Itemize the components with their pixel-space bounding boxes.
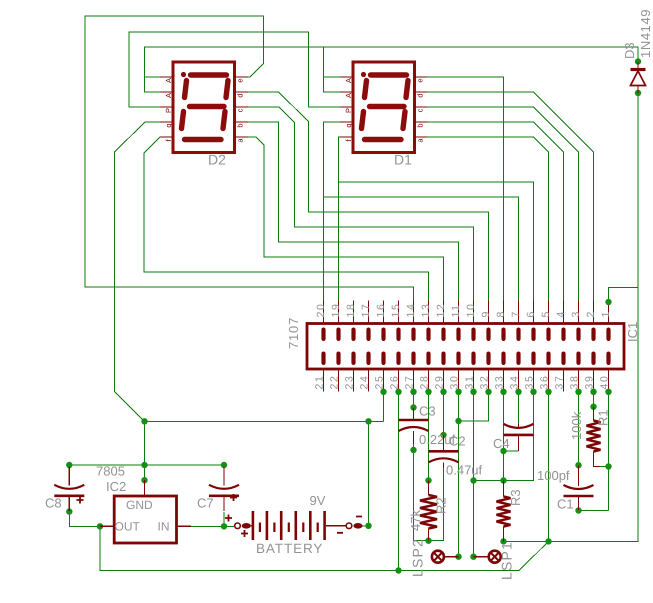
junction battery-minus tap	[365, 418, 371, 424]
wire C7 bottom lead	[223, 512, 225, 526]
resistor R3	[497, 497, 511, 527]
junction IC pin 35 stub	[530, 389, 536, 395]
junction IC pin 31 stub	[470, 389, 476, 395]
svg-text:100k: 100k	[569, 411, 584, 440]
svg-text:c: c	[236, 108, 245, 112]
junction R1 top	[590, 404, 596, 410]
junction IC pin 39 stub	[590, 389, 596, 395]
svg-text:d: d	[416, 93, 425, 97]
D2 segment g	[190, 104, 225, 109]
svg-text:C4: C4	[493, 436, 510, 451]
wire IC pin 29 to C2	[443, 392, 445, 445]
junction IC pin 28 stub	[425, 389, 431, 395]
junction IC pin 27 stub	[410, 389, 416, 395]
wire D2.d to IC pin 9	[248, 92, 489, 301]
junction IC pin 40 stub	[605, 389, 611, 395]
junction LSP1 pin	[470, 554, 476, 560]
svg-text:28: 28	[419, 375, 431, 390]
wire top rail C8 to C7	[69, 464, 224, 466]
svg-text:22: 22	[329, 375, 341, 390]
capacitor C4	[504, 424, 534, 428]
resistor R1	[587, 421, 601, 452]
wire D2.g down to ground node	[115, 122, 161, 421]
wire D1.c to IC pin 3	[427, 107, 579, 301]
C8 plus sign	[77, 497, 84, 504]
junction C8 top	[66, 462, 72, 468]
svg-text:C2: C2	[449, 434, 466, 449]
wire C4 bottom to pin 33 net	[504, 450, 519, 452]
svg-text:39: 39	[584, 375, 596, 390]
svg-text:19: 19	[330, 303, 342, 318]
wire decimal points D2.P to D1.P	[129, 32, 340, 107]
svg-text:A: A	[164, 93, 173, 98]
junction IC pin 29 stub	[440, 389, 446, 395]
svg-text:IC2: IC2	[106, 479, 126, 494]
svg-text:38: 38	[569, 375, 581, 390]
wire anode rail to diode D3	[145, 47, 639, 92]
svg-text:g: g	[344, 123, 353, 127]
wire down to battery minus	[368, 421, 370, 526]
wire IC pin 27 to C3	[413, 392, 415, 409]
svg-text:15: 15	[390, 303, 402, 318]
IC2 IN pin stub	[177, 525, 192, 527]
junction C8 bottom	[66, 508, 72, 514]
svg-text:A: A	[164, 78, 173, 83]
svg-text:29: 29	[434, 375, 446, 390]
svg-text:35: 35	[524, 375, 536, 390]
junction C4 bottom	[500, 448, 506, 454]
svg-text:20: 20	[315, 303, 327, 318]
wire D1.d to IC pin 2	[427, 92, 594, 301]
svg-text:26: 26	[389, 375, 401, 390]
D2 segment d	[185, 137, 222, 142]
wire ground node to 7805 GND pin	[144, 421, 146, 480]
svg-text:2: 2	[585, 310, 597, 317]
wire D1 anode riser	[324, 47, 341, 92]
svg-text:D3: D3	[622, 42, 637, 59]
wire D2.c to IC pin 10	[248, 107, 474, 301]
junction LSP2 pin	[455, 554, 461, 560]
svg-text:D1: D1	[394, 152, 412, 168]
svg-text:32: 32	[479, 375, 491, 390]
svg-text:33: 33	[494, 375, 506, 390]
IC1 pin stubs	[324, 301, 609, 392]
svg-text:C1: C1	[557, 497, 574, 512]
svg-text:12: 12	[435, 303, 447, 318]
svg-text:36: 36	[539, 375, 551, 390]
D1 segment d	[365, 137, 402, 142]
junction C1 bottom	[575, 507, 581, 513]
svg-text:R2: R2	[434, 497, 449, 514]
svg-text:A: A	[344, 93, 353, 98]
svg-text:6: 6	[525, 310, 537, 317]
wire IC pin 36 down	[548, 392, 550, 542]
wire D1.a to IC pin 5	[427, 137, 549, 301]
junction R3 top	[500, 477, 506, 483]
svg-text:40: 40	[599, 375, 611, 390]
svg-text:23: 23	[344, 375, 356, 390]
wire C8 bottom to OUT node	[69, 512, 100, 527]
svg-text:P: P	[344, 108, 353, 113]
svg-text:C7: C7	[197, 496, 214, 511]
D2 segment e	[182, 112, 184, 129]
wire D2.a to IC pin 12	[248, 137, 444, 301]
svg-text:0.47uf: 0.47uf	[446, 463, 483, 478]
junction IC pin 25 stub	[380, 389, 386, 395]
junction ground node	[141, 418, 147, 424]
capacitor C8	[54, 485, 84, 489]
svg-text:37: 37	[554, 375, 566, 390]
D1 segment b	[406, 81, 408, 98]
junction GND rail	[141, 462, 147, 468]
wire D1.g down to IC pin 20	[324, 122, 341, 301]
svg-text:1N4149: 1N4149	[638, 9, 653, 58]
C7 plus sign	[230, 494, 237, 501]
svg-text:30: 30	[449, 375, 461, 390]
junction C3 bottom	[410, 447, 416, 453]
junction diode bottom	[635, 90, 641, 96]
IC2 OUT pin stub	[100, 525, 114, 527]
svg-text:C3: C3	[419, 404, 436, 419]
svg-text:e: e	[416, 78, 425, 82]
svg-text:e: e	[236, 78, 245, 82]
junction pin30-pin32	[455, 418, 461, 424]
D1 segment f	[365, 81, 367, 98]
voltage regulator IC2 7805 body	[114, 496, 176, 543]
junction R3-rail-pin36	[545, 538, 551, 544]
junction R2 bottom	[425, 538, 431, 544]
junction IC pin 36 stub	[545, 389, 551, 395]
battery leads	[251, 525, 346, 527]
wire IC pin 25 jog	[383, 392, 385, 422]
junction C7 top	[221, 462, 227, 468]
svg-text:9: 9	[480, 310, 492, 317]
svg-text:GND: GND	[126, 498, 153, 512]
svg-text:OUT: OUT	[115, 520, 141, 534]
svg-text:18: 18	[345, 303, 357, 318]
svg-text:25: 25	[374, 375, 386, 390]
junction battery minus	[365, 523, 371, 529]
wire C1 bottom to pin 40 net	[579, 510, 609, 512]
junction C3 top	[410, 404, 416, 410]
svg-text:g: g	[164, 123, 173, 127]
wire IC pin 38 to C1	[578, 392, 580, 466]
svg-text:11: 11	[450, 303, 462, 317]
D1 segment g	[370, 104, 405, 109]
svg-text:7805: 7805	[96, 464, 125, 479]
D2 segment a	[191, 72, 227, 77]
junction IC pin 30 stub	[455, 389, 461, 395]
IC1 pads	[606, 328, 610, 342]
junction IC pin 38 stub	[575, 389, 581, 395]
svg-text:b: b	[416, 123, 425, 127]
wire D2.e to IC pin 14 (via top-left loop)	[85, 16, 414, 301]
junction IC pin 26 stub	[395, 389, 401, 395]
wire branch to IC pin 6	[339, 182, 534, 301]
wire R3 bottom	[504, 540, 549, 542]
IC2 GND pin stub	[144, 480, 146, 496]
svg-text:R1: R1	[596, 409, 611, 426]
svg-text:A: A	[344, 78, 353, 83]
capacitor C3	[399, 419, 429, 422]
wire IC pin 26 down to bottom rail	[398, 392, 400, 571]
svg-text:7107: 7107	[286, 317, 301, 349]
junction pin31 row	[470, 477, 476, 483]
svg-text:10: 10	[465, 303, 477, 318]
svg-text:LSP2: LSP2	[410, 538, 426, 577]
IC U1 7107 body	[307, 324, 624, 370]
wire branch pin 30 to pin 32	[459, 392, 489, 422]
wire diode cathode down right side	[549, 93, 639, 541]
junction R2 top	[425, 477, 431, 483]
wire D2.f to IC pin 13	[144, 137, 429, 301]
junction C1 top	[575, 462, 581, 468]
svg-text:b: b	[236, 123, 245, 127]
svg-text:C8: C8	[45, 496, 62, 511]
junction IC pin 1	[605, 299, 611, 305]
wire C3 bottom to R2 bottom	[414, 444, 429, 541]
D2 segment f	[185, 81, 187, 98]
battery minus marks	[337, 517, 362, 533]
junction R1 bottom	[605, 463, 611, 469]
svg-text:d: d	[236, 93, 245, 97]
wire D1.e to IC pin 8	[427, 77, 504, 301]
svg-text:13: 13	[420, 303, 432, 318]
wire D1.b to IC pin 4	[427, 122, 564, 301]
solder pad LSP2	[432, 551, 444, 563]
wire R1 bottom to pin 40	[600, 466, 609, 468]
wire IC pin 40 down	[608, 392, 610, 511]
wire IC pin 33 to R3	[503, 392, 505, 481]
junction diode top	[635, 58, 641, 64]
svg-text:7: 7	[510, 310, 522, 317]
svg-text:31: 31	[464, 375, 476, 390]
wire IC pin 30 down to LSP2	[458, 392, 460, 557]
svg-text:9V: 9V	[310, 493, 326, 508]
7-segment display D2 body	[173, 62, 235, 153]
junction OUT pin	[97, 523, 103, 529]
svg-text:1: 1	[600, 310, 612, 317]
svg-text:R3: R3	[508, 489, 523, 506]
battery plus marks	[225, 515, 248, 538]
D1 segment a	[371, 72, 407, 77]
svg-text:BATTERY: BATTERY	[256, 541, 323, 556]
wire IN pin to battery plus	[191, 525, 235, 527]
wire ground horizontal	[145, 420, 384, 422]
wire IC pin 39 to R1	[593, 392, 595, 407]
svg-text:4: 4	[555, 310, 567, 317]
D2 segment b	[226, 81, 228, 98]
svg-text:21: 21	[314, 375, 326, 390]
svg-text:24: 24	[359, 375, 371, 390]
wire D2 anode pin1	[145, 76, 161, 78]
wire battery minus terminal	[363, 525, 369, 527]
svg-text:IN: IN	[158, 520, 170, 534]
svg-text:8: 8	[495, 310, 507, 317]
wire IC pin 31 down to LSP1	[473, 392, 475, 557]
solder pad LSP1	[489, 551, 501, 563]
junction pin 26 on bottom rail	[395, 567, 401, 573]
svg-text:14: 14	[405, 303, 417, 318]
wire branch to IC pin 7	[324, 197, 519, 301]
diode D3	[631, 68, 646, 71]
capacitor C7	[209, 485, 239, 489]
svg-text:3: 3	[570, 310, 582, 317]
junction R3 bottom	[500, 538, 506, 544]
battery cells	[252, 511, 255, 540]
svg-text:5: 5	[540, 310, 552, 317]
svg-text:c: c	[416, 108, 425, 112]
D1 decimal point	[361, 72, 366, 77]
wire IC pin 34 to C4	[518, 392, 520, 425]
svg-text:47k: 47k	[408, 510, 423, 531]
wire IC pin 28 to R2	[428, 392, 430, 481]
battery B1 terminals	[235, 523, 241, 529]
svg-text:D2: D2	[208, 152, 226, 168]
junction IC pin 33 stub	[500, 389, 506, 395]
D1 segment e	[362, 112, 364, 129]
wire C2 bottom to R2 bottom	[429, 468, 444, 541]
capacitor C2	[429, 450, 459, 453]
wire D2.b to IC pin 11	[248, 122, 459, 301]
D2 decimal point	[181, 72, 186, 77]
svg-text:17: 17	[360, 303, 372, 318]
wire D1 anode pin1	[324, 76, 341, 78]
svg-text:16: 16	[375, 303, 387, 318]
svg-text:34: 34	[509, 375, 521, 390]
junction C7 bottom	[221, 523, 227, 529]
wire OUT rail along bottom	[100, 526, 549, 570]
D2 segment c	[223, 112, 225, 129]
junction C2 top	[440, 432, 446, 438]
junction IC pin 34 stub	[515, 389, 521, 395]
junction IC pin 32 stub	[485, 389, 491, 395]
svg-text:100pf: 100pf	[537, 468, 570, 483]
D2 pin stubs	[160, 77, 249, 137]
svg-text:P: P	[164, 108, 173, 113]
7-segment display D1 body	[353, 62, 415, 153]
svg-text:LSP1: LSP1	[499, 541, 515, 580]
wire branch pin 31 to pin 35	[474, 392, 534, 481]
D1 segment c	[403, 112, 405, 129]
resistor R2	[420, 495, 437, 529]
D1 pin stubs	[340, 77, 429, 137]
wire D1.f down to IC pin 19	[339, 137, 341, 301]
junction 7805 GND pin	[141, 477, 147, 483]
wire branch to IC pin 1	[609, 288, 639, 303]
svg-text:27: 27	[404, 375, 416, 390]
capacitor C1	[564, 485, 594, 489]
